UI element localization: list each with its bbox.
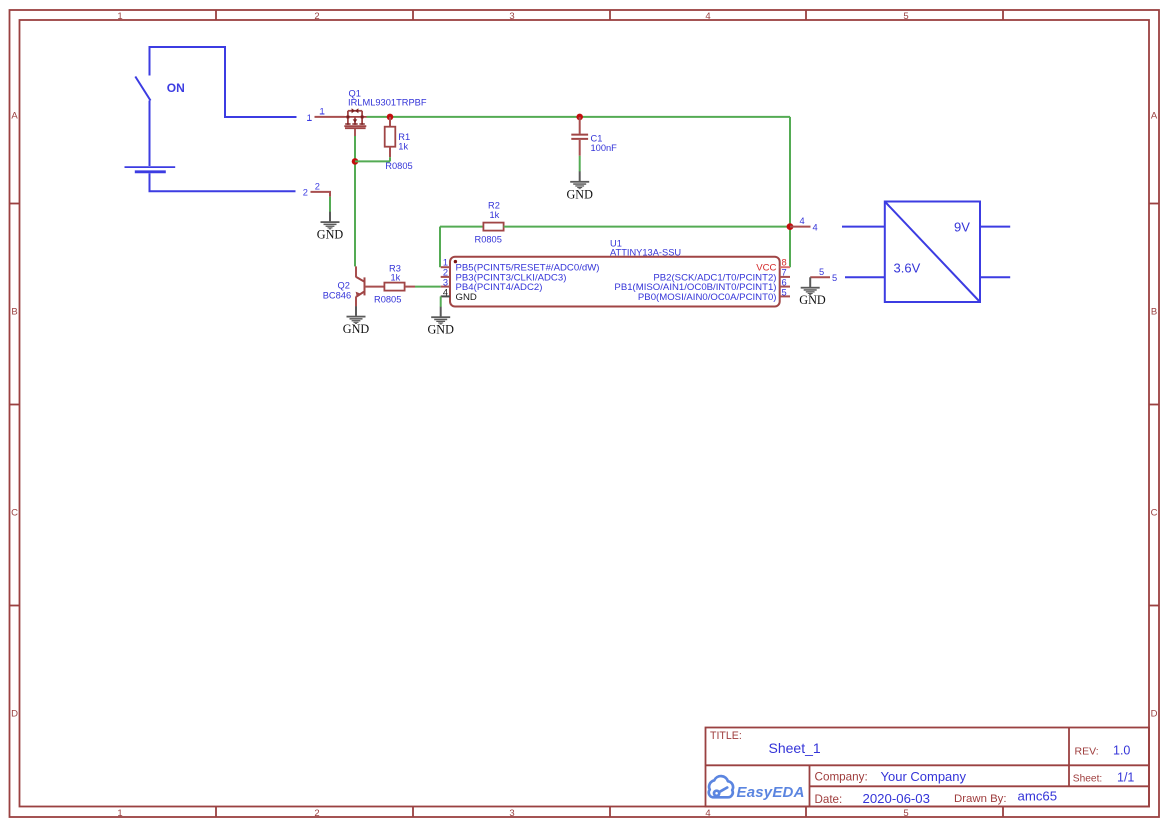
- wire net 2 stub: [311, 192, 331, 197]
- U1 pin 8 VCC: [780, 266, 790, 268]
- junction at C1 top: [576, 114, 583, 121]
- U1 pin 4 GND: [441, 295, 450, 297]
- ground net 5: [801, 277, 820, 295]
- svg-text:2: 2: [315, 181, 320, 191]
- svg-text:8: 8: [782, 257, 787, 267]
- svg-text:3.6V: 3.6V: [894, 260, 921, 275]
- svg-text:3: 3: [509, 808, 514, 819]
- svg-text:1k: 1k: [398, 141, 408, 151]
- ground Q2 emitter: [347, 306, 366, 324]
- svg-text:5: 5: [832, 273, 837, 283]
- wire U1 pin4 to ground: [440, 296, 442, 307]
- op-amp U1 ATTINY13A-SSU body: [450, 257, 780, 307]
- svg-text:4: 4: [705, 11, 710, 22]
- svg-text:Sheet_1: Sheet_1: [769, 740, 821, 756]
- svg-text:B: B: [11, 307, 17, 318]
- svg-text:2: 2: [443, 267, 448, 277]
- svg-text:2: 2: [303, 187, 308, 197]
- svg-text:3: 3: [509, 11, 514, 22]
- svg-text:9V: 9V: [954, 220, 970, 235]
- svg-text:2: 2: [314, 11, 319, 22]
- wire R2 left down to U1 pin1: [439, 227, 441, 268]
- svg-text:6: 6: [782, 277, 787, 287]
- svg-text:B: B: [1151, 307, 1157, 318]
- wire converter out bottom: [980, 276, 1010, 278]
- svg-text:C: C: [11, 508, 18, 519]
- wire converter out top: [980, 226, 1010, 228]
- svg-text:1: 1: [307, 113, 312, 123]
- svg-text:1k: 1k: [490, 210, 500, 220]
- svg-text:D: D: [11, 709, 18, 720]
- svg-text:100nF: 100nF: [591, 143, 618, 153]
- battery-switch loop: top wire: [125, 47, 297, 191]
- svg-text:4: 4: [705, 808, 710, 819]
- wire Q1 drain to rail (green with junction): [367, 116, 791, 118]
- svg-text:REV:: REV:: [1075, 746, 1099, 758]
- svg-text:1: 1: [443, 257, 448, 267]
- svg-text:C: C: [1151, 508, 1158, 519]
- wire switch to battery: [149, 101, 151, 167]
- svg-text:D: D: [1151, 709, 1158, 720]
- U1 pin 1: [441, 266, 450, 268]
- svg-text:5: 5: [782, 287, 787, 297]
- wire R1 bottom to gate junction: [355, 160, 390, 162]
- svg-text:GND: GND: [799, 293, 826, 307]
- wire to converter input 5: [845, 276, 885, 278]
- wire Q1 gate lead: [354, 136, 356, 161]
- DC-DC converter block: [885, 202, 980, 303]
- resistor R1: [389, 117, 391, 127]
- svg-text:R0805: R0805: [475, 234, 502, 244]
- svg-text:4: 4: [443, 287, 448, 297]
- battery BT1 plate long: [125, 166, 176, 168]
- svg-text:GND: GND: [456, 292, 477, 303]
- svg-text:2: 2: [314, 808, 319, 819]
- svg-text:5: 5: [903, 808, 908, 819]
- svg-text:4: 4: [813, 222, 818, 232]
- svg-text:ATTINY13A-SSU: ATTINY13A-SSU: [610, 247, 681, 257]
- wire C1 to ground: [579, 156, 581, 172]
- junction at R1 top: [387, 114, 394, 121]
- transistor Q2 BC846: [356, 277, 365, 297]
- svg-text:2020-06-03: 2020-06-03: [863, 791, 930, 806]
- wire net 1 stub: [315, 116, 345, 118]
- svg-text:1: 1: [117, 808, 122, 819]
- svg-text:5: 5: [903, 11, 908, 22]
- svg-text:GND: GND: [566, 187, 593, 201]
- svg-text:ON: ON: [167, 81, 185, 95]
- wire net 2 to ground: [329, 197, 331, 212]
- transistor Q1 IRLML9301TRPBF (P-MOSFET): [344, 111, 366, 136]
- wire VCC rail down to U1 pin 8: [789, 117, 791, 267]
- svg-text:3: 3: [443, 277, 448, 287]
- wire to converter input 4: [842, 226, 885, 228]
- svg-text:1/1: 1/1: [1117, 771, 1134, 785]
- U1 pin 5: [780, 295, 790, 297]
- U1 pin 2: [441, 276, 450, 278]
- svg-text:IRLML9301TRPBF: IRLML9301TRPBF: [348, 97, 427, 107]
- ground U1 pin4: [431, 307, 450, 325]
- svg-text:Q2: Q2: [338, 280, 350, 290]
- battery BT1 plate short: [135, 170, 166, 173]
- svg-text:R0805: R0805: [374, 294, 401, 304]
- svg-text:GND: GND: [317, 227, 344, 241]
- capacitor C1: [579, 117, 581, 134]
- svg-text:amc65: amc65: [1018, 789, 1058, 804]
- svg-text:Sheet:: Sheet:: [1073, 774, 1102, 785]
- svg-text:GND: GND: [343, 322, 370, 336]
- resistor R2: [440, 226, 483, 228]
- svg-text:Date:: Date:: [815, 793, 843, 806]
- EasyEDA logo: [709, 776, 733, 797]
- svg-text:1k: 1k: [391, 272, 401, 282]
- ground net 2: [321, 212, 340, 230]
- U1 pin 7: [780, 276, 790, 278]
- wire R3 to U1 pin3: [415, 286, 441, 288]
- svg-text:GND: GND: [427, 323, 454, 337]
- svg-text:1: 1: [320, 106, 325, 116]
- net 5 stub near pin7: [810, 276, 830, 278]
- svg-text:Company:: Company:: [815, 771, 868, 784]
- svg-text:4: 4: [800, 216, 805, 226]
- U1 pin 3: [441, 286, 450, 288]
- switch blade SW1: [135, 77, 150, 101]
- svg-text:5: 5: [819, 267, 824, 277]
- wire gate junction to Q2 collector: [354, 161, 356, 266]
- svg-text:A: A: [11, 111, 18, 122]
- svg-text:7: 7: [782, 267, 787, 277]
- svg-text:EasyEDA: EasyEDA: [737, 784, 805, 801]
- svg-text:A: A: [1151, 111, 1158, 122]
- resistor R3: [384, 283, 404, 291]
- title block: [706, 728, 1150, 807]
- ground C1: [570, 171, 589, 189]
- junction R2/VCC: [787, 223, 794, 230]
- net 4 stub: [790, 226, 811, 228]
- U1 pin 6: [780, 286, 790, 288]
- junction gate/R1: [352, 158, 359, 165]
- U1 pin1 marker: [454, 260, 457, 263]
- svg-text:PB0(MOSI/AIN0/OC0A/PCINT0): PB0(MOSI/AIN0/OC0A/PCINT0): [638, 292, 777, 303]
- svg-text:BC846: BC846: [323, 290, 351, 300]
- svg-text:Drawn By:: Drawn By:: [954, 793, 1007, 805]
- svg-text:Your Company: Your Company: [881, 769, 967, 784]
- title block texts: [710, 730, 1102, 806]
- Q2 base wire to R3: [365, 286, 385, 288]
- svg-text:1: 1: [117, 11, 122, 22]
- wire battery to net 2: [150, 173, 296, 191]
- svg-text:1.0: 1.0: [1113, 744, 1130, 758]
- svg-text:TITLE:: TITLE:: [710, 730, 742, 742]
- svg-text:R0805: R0805: [385, 161, 412, 171]
